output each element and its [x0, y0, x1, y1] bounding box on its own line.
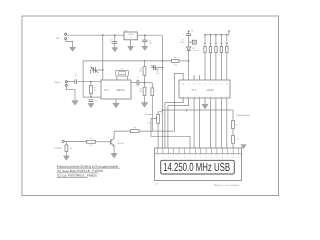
- svg-text:18: 18: [182, 83, 184, 86]
- svg-text:5v: 5v: [130, 36, 132, 39]
- svg-text:470: 470: [90, 144, 93, 147]
- svg-text:1: 1: [183, 95, 184, 98]
- svg-text:R5: R5: [174, 56, 176, 59]
- svg-text:17: 17: [188, 83, 190, 86]
- svg-text:4: 4: [199, 95, 200, 98]
- svg-text:R6: R6: [133, 126, 135, 129]
- svg-text:10k: 10k: [139, 90, 142, 93]
- svg-text:50MHz: 50MHz: [54, 81, 60, 84]
- svg-text:3: 3: [194, 95, 195, 98]
- svg-text:5: 5: [205, 95, 206, 98]
- svg-text:C1: C1: [96, 74, 98, 77]
- svg-text:Entrée: Entrée: [54, 147, 62, 150]
- svg-text:Fréquencemètre 50 MHz à PI pro: Fréquencemètre 50 MHz à PI programmable: [57, 164, 119, 168]
- svg-text:R2: R2: [90, 137, 92, 140]
- svg-text:Afficheur 1 x 16 caractères: Afficheur 1 x 16 caractères: [214, 184, 241, 187]
- svg-text:+5v: +5v: [191, 29, 194, 32]
- svg-text:CI 2: CI 2: [104, 89, 109, 92]
- svg-text:47: 47: [236, 123, 238, 126]
- svg-text:10k: 10k: [214, 42, 217, 45]
- svg-text:10k: 10k: [209, 42, 212, 45]
- svg-text:Contraste: Contraste: [145, 113, 155, 116]
- svg-text:1n: 1n: [75, 75, 77, 78]
- svg-text:14: 14: [204, 83, 206, 86]
- svg-text:(C) Luc PISTORIUS , F6BQU: (C) Luc PISTORIUS , F6BQU: [57, 174, 98, 178]
- svg-text:CI 1: CI 1: [192, 89, 197, 92]
- svg-text:3,3k: 3,3k: [174, 63, 177, 66]
- svg-text:4,7: 4,7: [237, 137, 240, 140]
- svg-text:40p: 40p: [156, 72, 159, 75]
- svg-text:MB506: MB506: [116, 89, 125, 92]
- svg-text:2N2708: 2N2708: [117, 142, 123, 145]
- svg-text:1M: 1M: [94, 89, 97, 92]
- svg-text:14.250.0 MHz USB: 14.250.0 MHz USB: [163, 160, 230, 174]
- svg-text:C7: C7: [137, 76, 139, 79]
- svg-text:10: 10: [226, 83, 228, 86]
- svg-text:10k: 10k: [225, 42, 228, 45]
- svg-text:16: 16: [193, 83, 195, 86]
- svg-text:9: 9: [226, 95, 227, 98]
- svg-text:16F84: 16F84: [206, 89, 214, 92]
- svg-text:CI 3: CI 3: [124, 29, 127, 32]
- svg-text:78L05: 78L05: [128, 33, 134, 36]
- svg-text:10k: 10k: [220, 42, 223, 45]
- svg-text:6: 6: [210, 95, 211, 98]
- svg-text:7: 7: [215, 95, 216, 98]
- svg-text:11: 11: [220, 83, 222, 86]
- svg-text:T1: T1: [117, 139, 119, 142]
- svg-text:15: 15: [199, 83, 201, 86]
- svg-text:10k: 10k: [139, 69, 142, 72]
- svg-text:10k: 10k: [203, 42, 206, 45]
- svg-text:E8: E8: [156, 182, 158, 185]
- svg-text:(C) Jean-Marc EVEILLE , F1FEW: (C) Jean-Marc EVEILLE , F1FEW: [57, 169, 103, 173]
- svg-text:100n: 100n: [180, 41, 184, 44]
- svg-text:Rétroéclairage: Rétroéclairage: [237, 114, 251, 117]
- svg-text:12: 12: [215, 83, 217, 86]
- svg-text:2: 2: [188, 95, 189, 98]
- svg-text:10k: 10k: [147, 121, 150, 124]
- svg-text:8: 8: [221, 95, 222, 98]
- svg-text:13: 13: [210, 83, 212, 86]
- svg-text:1k: 1k: [70, 147, 72, 150]
- svg-text:C0: C0: [95, 100, 97, 103]
- svg-text:1N4148: 1N4148: [193, 49, 199, 52]
